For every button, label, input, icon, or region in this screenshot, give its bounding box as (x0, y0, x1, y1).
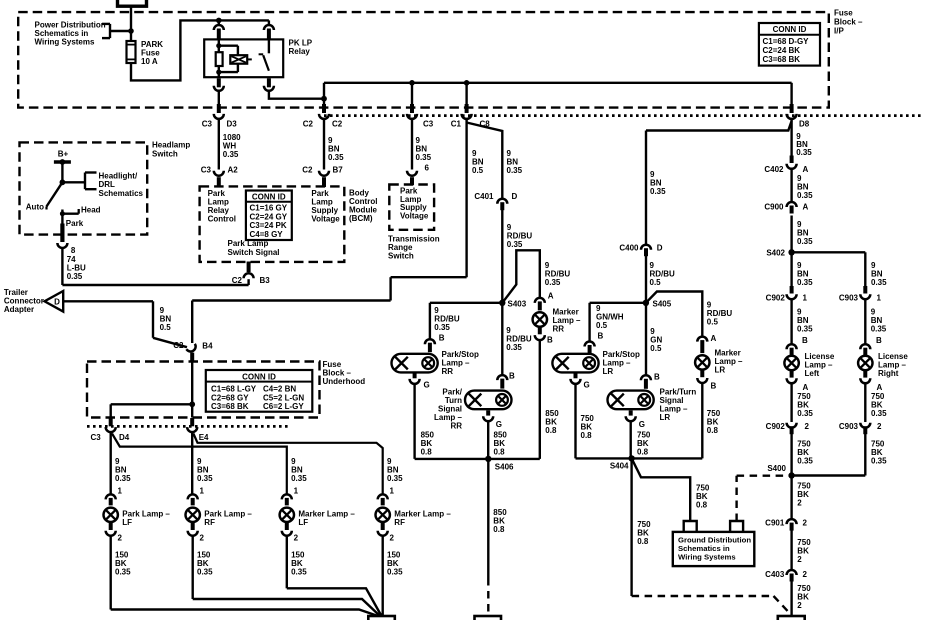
svg-text:S402: S402 (766, 249, 785, 258)
svg-text:6: 6 (425, 164, 430, 173)
svg-text:C903: C903 (839, 294, 859, 303)
svg-text:C1=68 D-GY: C1=68 D-GY (763, 37, 810, 46)
svg-text:Park Lamp: Park Lamp (228, 239, 269, 248)
svg-text:0.35: 0.35 (291, 568, 307, 577)
svg-text:0.35: 0.35 (328, 153, 344, 162)
svg-text:C400: C400 (619, 244, 639, 253)
svg-text:2: 2 (797, 601, 802, 610)
svg-text:Block –: Block – (834, 17, 863, 26)
svg-text:S403: S403 (508, 299, 527, 308)
svg-text:0.5: 0.5 (650, 344, 662, 353)
svg-text:G: G (584, 381, 590, 390)
svg-text:C6=2 L-GY: C6=2 L-GY (263, 402, 304, 411)
svg-text:S406: S406 (495, 463, 514, 472)
svg-text:Switch: Switch (388, 252, 414, 261)
svg-text:8: 8 (71, 246, 76, 255)
svg-text:C4=8 GY: C4=8 GY (250, 230, 284, 239)
svg-text:A: A (877, 383, 883, 392)
svg-text:0.5: 0.5 (707, 318, 719, 327)
svg-text:0.35: 0.35 (650, 187, 666, 196)
svg-text:B4: B4 (202, 342, 213, 351)
svg-text:B: B (711, 382, 717, 391)
svg-text:2: 2 (118, 534, 123, 543)
svg-text:0.35: 0.35 (545, 278, 561, 287)
svg-text:C2: C2 (303, 120, 314, 129)
svg-text:1: 1 (390, 487, 395, 496)
svg-text:0.35: 0.35 (291, 474, 307, 483)
svg-text:2: 2 (390, 534, 395, 543)
svg-text:0.5: 0.5 (596, 321, 608, 330)
svg-text:2: 2 (877, 422, 882, 431)
svg-text:C1=68 L-GY: C1=68 L-GY (211, 385, 257, 394)
svg-text:A: A (711, 334, 717, 343)
svg-text:2: 2 (797, 499, 802, 508)
svg-text:B3: B3 (260, 276, 271, 285)
svg-text:RR: RR (442, 367, 454, 376)
svg-text:0.35: 0.35 (115, 568, 131, 577)
svg-text:C3=68 BK: C3=68 BK (763, 55, 801, 64)
svg-text:0.8: 0.8 (696, 501, 708, 510)
svg-text:S404: S404 (610, 462, 629, 471)
svg-text:E4: E4 (199, 433, 209, 442)
svg-text:0.8: 0.8 (637, 537, 649, 546)
svg-text:C902: C902 (766, 294, 786, 303)
svg-text:A: A (803, 165, 809, 174)
svg-text:C3=24 PK: C3=24 PK (250, 221, 287, 230)
svg-text:1: 1 (200, 487, 205, 496)
svg-text:RF: RF (394, 518, 405, 527)
svg-text:Switch Signal: Switch Signal (228, 248, 280, 257)
svg-text:0.35: 0.35 (197, 474, 213, 483)
svg-text:C902: C902 (766, 422, 786, 431)
svg-text:2: 2 (803, 570, 808, 579)
svg-text:S405: S405 (653, 299, 672, 308)
svg-text:B: B (509, 372, 515, 381)
svg-text:C3: C3 (423, 120, 434, 129)
svg-text:0.35: 0.35 (797, 191, 813, 200)
svg-text:A2: A2 (228, 166, 239, 175)
svg-text:0.35: 0.35 (871, 409, 887, 418)
svg-text:Schematics: Schematics (99, 189, 144, 198)
svg-text:A: A (803, 203, 809, 212)
svg-text:0.5: 0.5 (650, 278, 662, 287)
svg-text:2: 2 (797, 555, 802, 564)
svg-text:LF: LF (122, 518, 132, 527)
svg-text:2: 2 (294, 534, 299, 543)
svg-text:0.35: 0.35 (507, 240, 523, 249)
svg-text:2: 2 (803, 519, 808, 528)
svg-text:B7: B7 (333, 166, 344, 175)
svg-text:C3=68 BK: C3=68 BK (211, 402, 249, 411)
svg-text:0.35: 0.35 (387, 474, 403, 483)
svg-text:0.35: 0.35 (387, 568, 403, 577)
svg-text:Switch: Switch (152, 149, 178, 158)
svg-text:Headlamp: Headlamp (152, 141, 190, 150)
svg-text:B: B (876, 336, 882, 345)
svg-text:1: 1 (294, 487, 299, 496)
svg-text:0.35: 0.35 (416, 153, 432, 162)
svg-text:B: B (547, 336, 553, 345)
svg-text:C1: C1 (451, 120, 462, 129)
svg-text:B: B (598, 332, 604, 341)
svg-text:0.8: 0.8 (421, 448, 433, 457)
svg-text:0.8: 0.8 (707, 426, 719, 435)
svg-text:CONN ID: CONN ID (242, 372, 276, 381)
svg-text:C2=24 BK: C2=24 BK (763, 46, 801, 55)
svg-text:0.35: 0.35 (197, 568, 213, 577)
svg-text:LR: LR (660, 413, 671, 422)
svg-text:Auto: Auto (26, 203, 44, 212)
svg-text:C2: C2 (302, 166, 313, 175)
svg-text:(BCM): (BCM) (349, 214, 373, 223)
svg-text:Adapter: Adapter (4, 305, 34, 314)
svg-text:RR: RR (450, 422, 462, 431)
svg-text:1: 1 (118, 487, 123, 496)
svg-text:C1=16 GY: C1=16 GY (250, 204, 288, 213)
svg-text:A: A (803, 383, 809, 392)
svg-text:0.35: 0.35 (434, 323, 450, 332)
svg-text:Control: Control (208, 215, 236, 224)
svg-text:Fuse: Fuse (834, 9, 853, 18)
svg-text:Right: Right (878, 369, 899, 378)
svg-text:Headlight/: Headlight/ (99, 172, 138, 181)
svg-text:0.35: 0.35 (506, 343, 522, 352)
svg-text:0.35: 0.35 (67, 272, 83, 281)
svg-text:G: G (496, 420, 502, 429)
svg-text:0.35: 0.35 (223, 150, 239, 159)
svg-text:0.35: 0.35 (507, 166, 523, 175)
svg-text:Park: Park (66, 219, 84, 228)
svg-text:C2: C2 (232, 276, 243, 285)
svg-text:C900: C900 (764, 203, 784, 212)
svg-text:B: B (654, 373, 660, 382)
svg-text:D4: D4 (119, 433, 130, 442)
svg-text:10 A: 10 A (141, 57, 158, 66)
svg-text:0.35: 0.35 (797, 457, 813, 466)
svg-text:Left: Left (805, 369, 820, 378)
svg-text:0.8: 0.8 (545, 426, 557, 435)
svg-text:0.35: 0.35 (871, 325, 887, 334)
svg-text:S400: S400 (767, 464, 786, 473)
svg-text:2: 2 (200, 534, 205, 543)
svg-text:0.8: 0.8 (581, 431, 593, 440)
svg-text:B+: B+ (58, 149, 69, 158)
svg-text:0.8: 0.8 (493, 525, 505, 534)
svg-text:0.5: 0.5 (472, 166, 484, 175)
svg-text:D3: D3 (227, 120, 238, 129)
svg-text:0.35: 0.35 (796, 148, 812, 157)
svg-text:LR: LR (715, 366, 726, 375)
svg-text:0.35: 0.35 (871, 278, 887, 287)
svg-text:D: D (54, 298, 60, 307)
svg-text:CONN ID: CONN ID (252, 192, 286, 201)
svg-text:B: B (802, 336, 808, 345)
svg-text:C2=24 GY: C2=24 GY (250, 212, 288, 221)
svg-text:Voltage: Voltage (400, 211, 429, 220)
svg-text:1: 1 (803, 294, 808, 303)
svg-text:C4=2 BN: C4=2 BN (263, 385, 296, 394)
svg-text:D8: D8 (799, 120, 810, 129)
svg-text:C3: C3 (202, 120, 213, 129)
svg-text:0.8: 0.8 (637, 448, 649, 457)
svg-text:A: A (548, 292, 554, 301)
svg-text:0.35: 0.35 (115, 474, 131, 483)
svg-text:0.35: 0.35 (797, 325, 813, 334)
svg-text:C2: C2 (173, 341, 184, 350)
svg-text:Voltage: Voltage (311, 215, 340, 224)
svg-text:I/P: I/P (834, 26, 844, 35)
svg-text:C401: C401 (474, 192, 494, 201)
svg-text:D: D (657, 244, 663, 253)
svg-text:RF: RF (204, 518, 215, 527)
svg-text:Wiring Systems: Wiring Systems (35, 38, 95, 47)
svg-text:C402: C402 (764, 165, 784, 174)
svg-text:0.35: 0.35 (797, 278, 813, 287)
svg-text:2: 2 (805, 422, 810, 431)
svg-text:RR: RR (553, 325, 565, 334)
svg-text:C3: C3 (91, 433, 102, 442)
svg-text:G: G (424, 381, 430, 390)
svg-text:LR: LR (603, 367, 614, 376)
svg-text:C403: C403 (765, 570, 785, 579)
svg-text:DRL: DRL (99, 180, 116, 189)
svg-text:B: B (439, 334, 445, 343)
svg-text:0.8: 0.8 (494, 448, 506, 457)
svg-text:0.35: 0.35 (797, 237, 813, 246)
svg-text:C2: C2 (332, 120, 343, 129)
svg-text:Relay: Relay (289, 47, 311, 56)
svg-text:Head: Head (81, 206, 101, 215)
svg-text:CONN ID: CONN ID (773, 25, 807, 34)
svg-text:0.35: 0.35 (871, 457, 887, 466)
svg-text:C3: C3 (201, 166, 212, 175)
svg-text:1: 1 (877, 294, 882, 303)
svg-text:G: G (639, 420, 645, 429)
svg-text:Underhood: Underhood (323, 377, 366, 386)
svg-text:0.35: 0.35 (797, 409, 813, 418)
svg-text:C5=2 L-GN: C5=2 L-GN (263, 393, 304, 402)
svg-text:C901: C901 (765, 519, 785, 528)
svg-text:Wiring Systems: Wiring Systems (678, 553, 736, 562)
svg-text:C2=68 GY: C2=68 GY (211, 393, 249, 402)
svg-text:C903: C903 (839, 422, 859, 431)
svg-text:0.5: 0.5 (160, 323, 172, 332)
svg-text:LF: LF (298, 518, 308, 527)
svg-text:D: D (512, 192, 518, 201)
